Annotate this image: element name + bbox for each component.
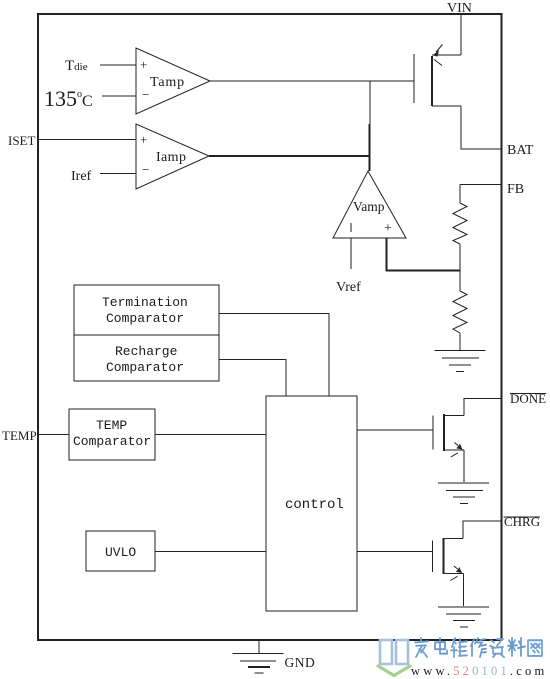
watermark logo (378, 640, 410, 676)
block control (266, 396, 357, 611)
ground (divider) (435, 351, 486, 372)
node 135C (44, 86, 136, 111)
comparator Termination (74, 285, 219, 335)
node Tdie (65, 58, 136, 74)
svg-text:www.520101.com: www.520101.com (411, 664, 547, 678)
svg-text:Iref: Iref (71, 169, 92, 184)
ground (Q3 source) (438, 607, 489, 627)
IC boundary (38, 14, 502, 640)
wire Q1 gate (210, 80, 414, 82)
svg-text:VIN: VIN (447, 1, 472, 16)
wire Termination to control (219, 314, 329, 397)
node VIN (447, 1, 472, 55)
svg-text:GND: GND (285, 655, 316, 670)
ground GND (233, 640, 316, 673)
ground (Q2 source) (438, 483, 489, 504)
comparator Recharge (74, 335, 219, 381)
node CHRG (504, 514, 541, 529)
wire control to Q2 gate (357, 429, 433, 431)
svg-text:ISET: ISET (8, 133, 36, 148)
svg-text:Iamp: Iamp (156, 150, 186, 165)
svg-text:+: + (140, 57, 147, 72)
wire control to Q3 gate (357, 551, 432, 553)
wire Vamp minus input / node Vref (336, 238, 361, 295)
op-amp Vamp (333, 171, 406, 238)
op-amp Iamp (136, 124, 209, 189)
svg-text:BAT: BAT (507, 143, 534, 158)
svg-text:Comparator: Comparator (73, 434, 151, 449)
wire TEMP comparator to control (155, 434, 266, 436)
svg-text:TEMP: TEMP (2, 428, 37, 443)
wire Iamp output (209, 155, 370, 157)
wire R1 to R2 (459, 244, 461, 291)
watermark text (415, 638, 542, 657)
svg-text:−: − (142, 87, 149, 102)
node FB (460, 182, 524, 203)
svg-text:Comparator: Comparator (106, 311, 184, 326)
node DONE (510, 391, 546, 406)
svg-text:control: control (285, 497, 344, 513)
svg-text:Recharge: Recharge (115, 344, 177, 359)
node TEMP (2, 428, 69, 443)
svg-text:+: + (140, 132, 147, 147)
svg-text:Comparator: Comparator (106, 360, 184, 375)
svg-text:Vamp: Vamp (353, 199, 385, 214)
resistor R1 (453, 203, 467, 244)
svg-text:+: + (384, 221, 392, 236)
svg-text:UVLO: UVLO (105, 545, 136, 560)
svg-text:FB: FB (507, 182, 524, 197)
svg-text:TEMP: TEMP (96, 418, 127, 433)
resistor R2 (453, 291, 467, 333)
svg-text:Termination: Termination (102, 295, 188, 310)
wire R2 to ground (459, 333, 461, 350)
block UVLO (86, 531, 155, 571)
transistor Q2 (DONE) (433, 399, 501, 483)
wire UVLO to control (155, 551, 266, 553)
svg-text:−: − (142, 162, 149, 177)
wire Vamp plus input (387, 238, 461, 271)
transistor Q1 (414, 45, 461, 107)
wire junction vertical (369, 81, 372, 171)
transistor Q3 (CHRG) (433, 521, 502, 606)
wire Recharge to control (219, 360, 286, 397)
svg-text:Vref: Vref (336, 280, 361, 295)
node ISET (8, 133, 136, 148)
svg-text:Tamp: Tamp (150, 75, 185, 90)
svg-text:135oC: 135oC (44, 86, 93, 111)
svg-text:CHRG: CHRG (504, 514, 540, 529)
wire Q1 drain to BAT (461, 106, 501, 149)
comparator TEMP (69, 409, 155, 460)
node Iref (71, 169, 136, 184)
svg-text:Tdie: Tdie (65, 58, 88, 74)
op-amp Tamp (136, 48, 210, 114)
